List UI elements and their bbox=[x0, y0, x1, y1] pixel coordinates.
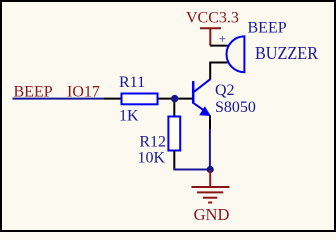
buzzer pin + (top) bbox=[210, 45, 227, 47]
buzzer pin - (bottom) bbox=[210, 62, 227, 65]
resistor R12 bbox=[168, 117, 180, 151]
R12 pin 2 bbox=[173, 151, 175, 169]
svg-text:S8050: S8050 bbox=[215, 99, 256, 116]
svg-text:BEEP: BEEP bbox=[248, 19, 287, 36]
transistor Q2 bbox=[193, 79, 211, 116]
svg-text:BUZZER: BUZZER bbox=[255, 43, 318, 63]
wire R12 to ground node bbox=[174, 168, 210, 170]
power port VCC3.3 bbox=[200, 28, 221, 45]
svg-text:VCC3.3: VCC3.3 bbox=[186, 10, 239, 27]
Q2 emitter pin bbox=[209, 116, 211, 131]
svg-text:R12: R12 bbox=[139, 134, 166, 151]
svg-text:R11: R11 bbox=[119, 74, 145, 91]
Q2 emitter stroke bbox=[193, 103, 204, 111]
svg-text:Q2: Q2 bbox=[215, 82, 235, 99]
Q2 collector pin bbox=[209, 63, 211, 80]
buzzer LS1 body bbox=[227, 35, 245, 73]
net label BEEP IO17 bbox=[14, 84, 100, 101]
Q2 emitter arrow bbox=[199, 106, 211, 116]
svg-text:10K: 10K bbox=[137, 150, 165, 167]
junction node (emitter / R12 / GND) bbox=[207, 166, 214, 173]
svg-text:+: + bbox=[219, 31, 226, 46]
svg-text:GND: GND bbox=[194, 205, 230, 224]
R12 pin 1 bbox=[173, 99, 175, 116]
R11 pin 1 bbox=[104, 98, 121, 100]
R11 pin 2 bbox=[158, 98, 175, 100]
Q2 collector stroke bbox=[193, 79, 210, 92]
wire emitter to ground node bbox=[209, 129, 211, 170]
svg-text:1K: 1K bbox=[119, 108, 139, 125]
Q2 base bar bbox=[192, 81, 195, 104]
resistor R11 bbox=[122, 94, 158, 105]
ground symbol GND bbox=[191, 170, 229, 203]
Q2 base pin bbox=[175, 98, 193, 100]
junction node (base / R12) bbox=[171, 95, 178, 102]
wire net BEEP (horizontal to R11) bbox=[13, 98, 106, 100]
